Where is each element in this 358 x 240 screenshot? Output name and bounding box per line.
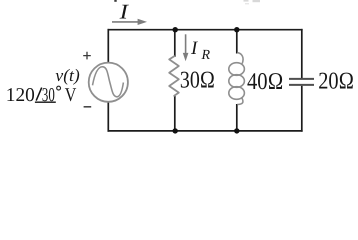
inductor 40ohm coil loop 1 — [229, 63, 245, 76]
resistor 30ohm zigzag — [169, 56, 179, 96]
current arrow I — [112, 21, 139, 23]
svg-text:30: 30 — [42, 85, 55, 106]
svg-text:v(t): v(t) — [55, 65, 80, 85]
wire: top horizontal bus — [108, 29, 303, 31]
wire: resistor branch lower lead — [174, 95, 176, 131]
ac voltage source circle — [89, 63, 128, 102]
degree symbol — [57, 86, 61, 90]
junction dot: inductor top node — [234, 27, 239, 32]
polarity minus sign — [84, 106, 92, 108]
wire: source branch lower lead — [107, 102, 109, 131]
wire: source branch upper lead — [107, 29, 109, 63]
capacitor 20ohm top plate — [289, 78, 314, 80]
inductor 40ohm coil loop 2 — [229, 75, 245, 88]
wire: inductor branch lower lead — [236, 104, 238, 132]
wire: inductor branch upper lead — [236, 29, 238, 54]
svg-text:30Ω: 30Ω — [180, 68, 215, 94]
svg-text:I: I — [190, 38, 199, 59]
inductor top lead-in curve — [237, 53, 243, 64]
wire: resistor branch upper lead — [174, 29, 176, 57]
wire: bottom horizontal bus — [108, 130, 303, 132]
svg-text:120: 120 — [6, 85, 35, 106]
current arrow IR — [185, 34, 187, 54]
inductor bottom lead-out curve — [237, 98, 243, 104]
ac voltage source sine wave — [93, 67, 124, 97]
svg-text:40Ω: 40Ω — [247, 69, 283, 95]
wire: capacitor branch lower lead — [301, 86, 303, 132]
cropped text remnant speck top-left — [114, 0, 116, 2]
inductor 40ohm coil loop 3 — [229, 87, 245, 100]
svg-text:I: I — [118, 0, 129, 24]
polarity plus sign — [83, 52, 91, 60]
capacitor 20ohm bottom plate — [289, 84, 314, 86]
junction dot: resistor top node — [173, 27, 178, 32]
svg-text:V: V — [65, 85, 77, 106]
junction dot: resistor bottom node — [173, 128, 178, 133]
cropped text remnant faint marks top-middle — [244, 0, 261, 4]
phasor angle slash — [36, 88, 42, 101]
junction dot: inductor bottom node — [234, 128, 239, 133]
svg-text:20Ω: 20Ω — [318, 68, 354, 94]
wire: capacitor branch upper lead — [301, 29, 303, 78]
phasor angle underline — [35, 101, 56, 103]
svg-text:R: R — [201, 48, 211, 63]
